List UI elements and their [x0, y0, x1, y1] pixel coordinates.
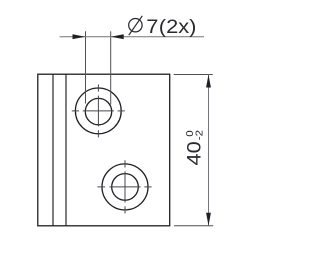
- dim D2 tolerance upper 0: [185, 130, 196, 136]
- hole H1 centerline cross: [83, 96, 114, 127]
- fold line 1: [52, 74, 54, 226]
- hole H1 outer circle: [75, 88, 121, 134]
- hole H2 inner circle: [112, 174, 139, 201]
- dim D2 extension line bottom: [174, 225, 213, 227]
- dim D1 arrow left: [73, 34, 86, 39]
- dim D1 dimension line: [60, 36, 204, 38]
- svg-text:40: 40: [184, 141, 205, 165]
- dim D1 diameter symbol: [129, 16, 143, 35]
- dim D2 dimension line: [208, 75, 210, 226]
- dim D1 extension line right: [110, 31, 112, 104]
- hole H2 outer circle: [102, 164, 148, 210]
- dim D2 extension line top: [174, 74, 213, 76]
- svg-text:-2: -2: [194, 130, 205, 140]
- plate outline: [38, 74, 170, 226]
- fold line 2: [65, 74, 67, 226]
- hole H2 centerline cross: [109, 171, 140, 202]
- hole H2 centerline ticks: [97, 160, 151, 213]
- svg-text:7: 7: [146, 16, 158, 37]
- hole H1 centerline ticks: [72, 84, 125, 137]
- dim D2 arrow top: [206, 75, 211, 88]
- dim D2 arrow bottom: [206, 213, 211, 226]
- dim D2 tolerance lower -2: [194, 130, 205, 140]
- dim D2 text 40: [184, 141, 205, 165]
- svg-text:(2x): (2x): [159, 16, 197, 37]
- dim D1 arrow right: [111, 34, 124, 39]
- dim D1 text 7 (2x): [146, 16, 196, 37]
- hole H1 inner circle: [85, 98, 111, 124]
- dim D1 extension line left: [85, 31, 87, 103]
